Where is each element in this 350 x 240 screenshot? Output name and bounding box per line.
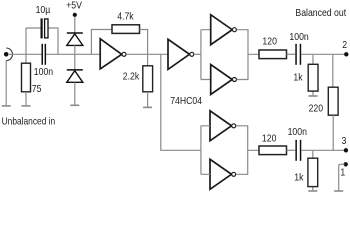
- wire to 220: [332, 54, 334, 87]
- svg-text:3: 3: [342, 136, 347, 147]
- terminal 1: [339, 162, 348, 190]
- op-amp U1F inverter: [210, 159, 236, 189]
- resistor 75: [22, 63, 31, 105]
- op-amp U1C inverter: [211, 15, 237, 45]
- svg-text:10µ: 10µ: [36, 4, 51, 15]
- wire drop to lower pair: [161, 54, 201, 150]
- wire top pair output join: [237, 30, 260, 80]
- svg-text:100n: 100n: [34, 66, 53, 77]
- wire U1B out to pair inputs: [194, 53, 201, 55]
- wire shield to ground: [5, 61, 7, 106]
- wire U1A output line: [126, 53, 168, 55]
- svg-text:4.7k: 4.7k: [117, 11, 134, 22]
- svg-text:120: 120: [262, 133, 277, 144]
- wire top pair input join: [201, 30, 211, 80]
- wire cap to terminal 2: [301, 53, 344, 55]
- op-amp U1B inverter: [168, 39, 194, 69]
- terminal 2: [344, 52, 348, 56]
- ground (terminal 1): [334, 190, 343, 192]
- wire node A vertical (cap branch up / R 75 down): [26, 28, 41, 63]
- svg-text:+5V: +5V: [66, 0, 82, 11]
- wire cap branch right: [48, 28, 58, 54]
- wire main input line left: [8, 53, 42, 55]
- resistor 4.7k: [112, 25, 140, 34]
- svg-text:100n: 100n: [288, 127, 307, 138]
- ground (diode D2): [70, 104, 79, 106]
- wire feedback left lead: [91, 30, 112, 55]
- capacitor 100n (bottom out): [295, 140, 301, 161]
- wire main input line right of C2: [46, 53, 100, 55]
- svg-text:Balanced out: Balanced out: [295, 7, 346, 18]
- diode D1 (to +5V): [67, 33, 83, 45]
- capacitor C2 100n (input): [42, 44, 47, 65]
- svg-text:75: 75: [32, 84, 42, 95]
- op-amp U1E inverter: [210, 111, 236, 141]
- resistor 1k (bottom): [308, 150, 318, 190]
- wire diode junction: [74, 45, 76, 69]
- wire cap to terminal 3: [301, 149, 344, 151]
- svg-text:1k: 1k: [294, 172, 303, 183]
- op-amp U1D inverter: [211, 65, 237, 95]
- resistor 220: [328, 87, 338, 150]
- svg-text:1: 1: [340, 167, 345, 178]
- svg-text:2: 2: [342, 39, 347, 50]
- resistor 120 (top): [259, 50, 287, 59]
- resistor 2.2k: [143, 66, 153, 107]
- ground (input shield): [2, 105, 11, 107]
- svg-text:2.2k: 2.2k: [123, 71, 140, 82]
- op-amp U1A inverter: [100, 39, 126, 69]
- wire bottom pair input join: [201, 126, 210, 175]
- wire 120 to cap (bottom): [287, 149, 296, 151]
- diode D2 (to ground): [67, 70, 83, 105]
- svg-text:1k: 1k: [293, 72, 302, 83]
- svg-text:220: 220: [309, 103, 324, 114]
- svg-text:Unbalanced in: Unbalanced in: [2, 116, 56, 127]
- ground (resistor 2.2k): [143, 106, 152, 108]
- wire bottom pair output join: [236, 126, 259, 175]
- resistor 120 (bottom): [259, 146, 287, 155]
- input connector K1 (phono): [4, 48, 13, 61]
- ground (resistor 75): [22, 105, 31, 107]
- ground (1k top): [309, 95, 318, 97]
- wire 120 to cap (top): [287, 53, 296, 55]
- node +5V: [73, 13, 77, 33]
- terminal 3: [344, 148, 348, 152]
- svg-text:120: 120: [262, 36, 277, 47]
- capacitor 10µ (electrolytic): [41, 18, 49, 38]
- wire feedback right lead: [140, 30, 148, 66]
- capacitor 100n (top out): [295, 44, 301, 65]
- svg-text:100n: 100n: [289, 32, 308, 43]
- ground (1k bottom): [308, 190, 317, 192]
- svg-text:74HC04: 74HC04: [170, 95, 202, 106]
- resistor 1k (top): [308, 54, 318, 95]
